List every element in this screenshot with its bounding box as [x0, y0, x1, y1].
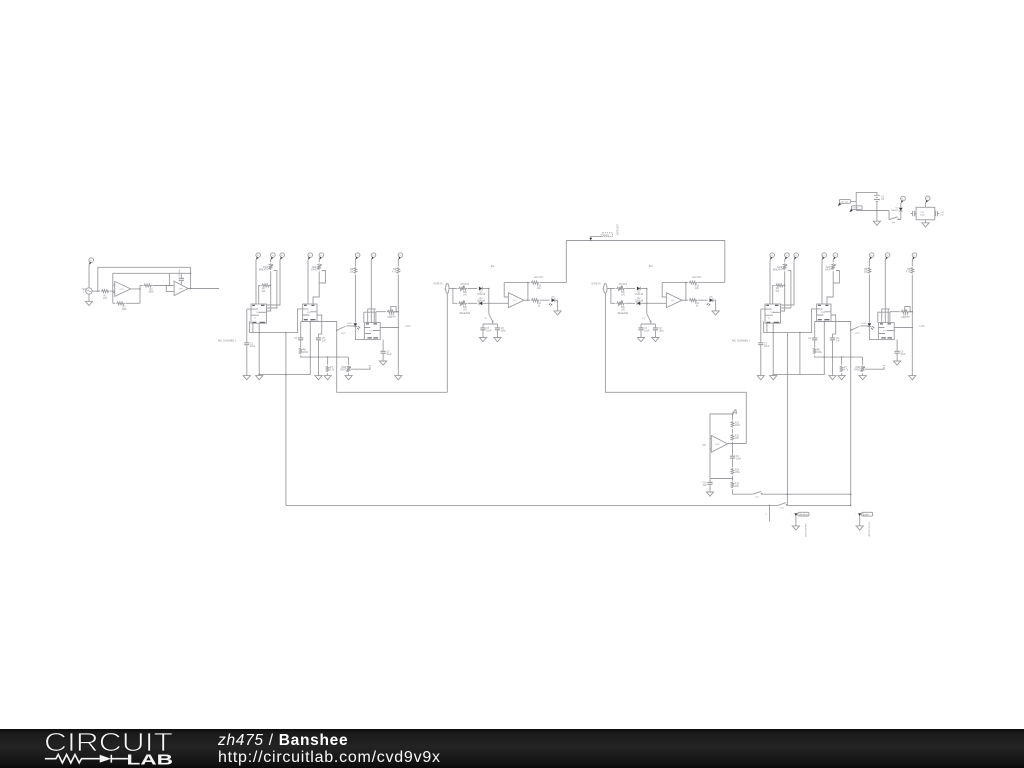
svg-text:10k: 10k: [261, 291, 266, 293]
svg-text:LM: LM: [702, 444, 705, 447]
capacitor C10: [707, 482, 712, 484]
wire IC2 bottom left: [300, 322, 302, 338]
wire wiper: [267, 271, 277, 308]
capacitor C12: [935, 211, 940, 217]
svg-text:0V ref: 0V ref: [853, 207, 859, 210]
diode D1: [479, 287, 482, 291]
capacitor C6: [381, 351, 386, 353]
wire output: [188, 288, 219, 290]
svg-text:GATE OUT: GATE OUT: [617, 223, 620, 235]
svg-text:+9V rail: +9V rail: [840, 201, 848, 204]
svg-text:100u: 100u: [501, 331, 507, 333]
wire IC3 bottom: [382, 340, 384, 351]
svg-text:LAB: LAB: [127, 753, 174, 768]
svg-text:+: +: [175, 286, 177, 288]
wire long net: [285, 333, 287, 375]
IC U3: [303, 304, 317, 322]
svg-text:swing: swing: [603, 235, 610, 237]
wire: [318, 260, 320, 263]
wire: [732, 459, 734, 468]
preamp cluster 1 (left): [218, 253, 411, 380]
trimmer GAIN: [317, 263, 322, 269]
svg-text:LFO: LFO: [406, 324, 411, 328]
wire main bus: [286, 504, 778, 506]
svg-text:DEPTH: DEPTH: [388, 317, 396, 319]
svg-text:+: +: [116, 285, 118, 287]
svg-text:680k: 680k: [149, 292, 155, 294]
pot RATE: [348, 357, 350, 365]
wire lfo out bus: [733, 493, 753, 495]
node junctions: [166, 285, 168, 287]
wire: [762, 493, 851, 495]
svg-text:AFTERTOUCH: AFTERTOUCH: [868, 521, 871, 536]
capacitor C8: [495, 328, 500, 330]
svg-text:1N4148: 1N4148: [477, 294, 486, 296]
wire: [259, 285, 261, 304]
wire: [270, 260, 272, 263]
svg-text:-: -: [176, 291, 177, 293]
wire IC1 bottom: [253, 323, 259, 332]
wire R3 row: [140, 285, 173, 287]
wire: [110, 290, 115, 292]
wire output: [524, 299, 550, 301]
resistor R14: [731, 468, 734, 474]
supply flag V1: [89, 258, 94, 265]
switch gate: [336, 330, 338, 332]
capacitor C11: [911, 211, 916, 217]
wire: [482, 302, 508, 304]
svg-text:pwr: pwr: [892, 221, 896, 224]
svg-text:10k: 10k: [735, 486, 740, 488]
ground: [324, 376, 331, 380]
ground: [494, 338, 501, 342]
resistor R11: [531, 299, 540, 302]
svg-text:10uF: 10uF: [486, 331, 492, 333]
svg-text:9V: 9V: [881, 199, 884, 201]
svg-text:C4: C4: [294, 338, 298, 340]
svg-text:RATE: RATE: [340, 369, 346, 372]
switch S2: [753, 491, 761, 494]
wire IC3 right pin: [380, 327, 398, 329]
resistor R3: [143, 284, 152, 287]
wire RATE wiper: [351, 367, 370, 369]
wire long net2: [301, 322, 337, 375]
wire: [307, 260, 309, 305]
capacitor C1: [180, 273, 182, 284]
svg-text:S1: S1: [484, 318, 487, 320]
svg-text:+: +: [855, 514, 857, 516]
svg-text:LIN: LIN: [463, 295, 467, 297]
svg-text:+: +: [791, 514, 793, 516]
svg-text:sw2: sw2: [780, 508, 785, 510]
resistor R4: [261, 284, 270, 287]
ground: [88, 294, 90, 301]
op-amp U6: [711, 436, 727, 453]
svg-text:10k: 10k: [537, 288, 542, 290]
wire gate A riser: [446, 293, 448, 392]
supply flag F1: [256, 253, 261, 260]
wire: [925, 203, 927, 223]
svg-text:LM3: LM3: [715, 444, 720, 446]
supply flag F8: [398, 253, 403, 260]
svg-text:1k: 1k: [538, 306, 541, 308]
wire: [313, 271, 319, 304]
switch S4: [889, 217, 898, 220]
wire left net A: [285, 375, 287, 506]
svg-text:+: +: [713, 440, 715, 442]
wire: [467, 302, 477, 304]
svg-text:10uF: 10uF: [920, 215, 926, 217]
wire: [732, 414, 734, 420]
wire lower branch: [453, 289, 458, 304]
wire feedback box: [364, 312, 376, 322]
svg-text:10uF: 10uF: [386, 354, 392, 356]
ground: [706, 492, 713, 496]
preamp cluster 2 (right copy): [732, 253, 925, 380]
wire: [732, 429, 734, 434]
port GATE: [446, 284, 449, 294]
svg-text:LIN: LIN: [463, 310, 467, 312]
wire: [467, 288, 477, 290]
wire junction left: [710, 479, 733, 483]
svg-text:100k: 100k: [735, 472, 741, 474]
pot RELEASE: [458, 300, 467, 306]
supply flag F5: [319, 253, 324, 260]
LED2: [552, 298, 555, 302]
wire: [354, 275, 356, 323]
wire: [876, 202, 878, 211]
resistor R15: [731, 482, 734, 488]
svg-text:ATTACK: ATTACK: [461, 283, 470, 286]
IC U2: [251, 304, 267, 323]
svg-text:10n: 10n: [940, 215, 944, 217]
supply flag F7: [371, 253, 376, 260]
resistor R7: [327, 357, 329, 365]
capacitor C4: [298, 338, 303, 340]
svg-text:-: -: [116, 293, 117, 295]
svg-text:+: +: [510, 297, 512, 299]
wire left gate net: [337, 375, 448, 393]
svg-text:sw1: sw1: [755, 497, 760, 499]
svg-text:MIC CHANNEL 1: MIC CHANNEL 1: [218, 340, 237, 343]
overall feedback top wire: [98, 267, 191, 291]
capacitor C5: [316, 338, 321, 340]
svg-text:Buffer: Buffer: [863, 513, 869, 516]
wire: [92, 290, 100, 292]
wire: [255, 260, 257, 305]
power supply corner: [838, 193, 945, 227]
resistor R2: [116, 302, 125, 305]
wire cap riser: [168, 273, 170, 285]
svg-text:EG: EG: [491, 264, 495, 268]
supply flag V+: [901, 196, 906, 203]
svg-text:RELEASE: RELEASE: [460, 312, 471, 315]
wire gate B riser: [605, 293, 746, 443]
wire bottom: [856, 210, 889, 212]
wire feedback box 2: [368, 309, 376, 323]
op-amp U1B: [174, 281, 188, 295]
wire: [732, 476, 734, 481]
ground: [922, 223, 929, 227]
wire stub: [769, 505, 771, 521]
svg-text:GAIN: GAIN: [311, 269, 317, 272]
trimmer DEPTH: [387, 310, 396, 313]
svg-text:100k: 100k: [735, 425, 741, 427]
svg-text:C1 10p: C1 10p: [179, 269, 181, 277]
LFO block U6: [702, 410, 746, 497]
wire output riser: [527, 283, 529, 301]
capacitor C9: [730, 456, 735, 458]
wire: [267, 260, 281, 306]
svg-text:LED1: LED1: [347, 323, 353, 325]
cluster tail wires: [285, 333, 851, 506]
wire op-amp1 output: [131, 286, 140, 304]
wire: [376, 311, 398, 313]
wire: [449, 288, 457, 290]
ground: [873, 221, 880, 225]
mic source V1: [86, 288, 92, 294]
pot ATTACK: [458, 286, 467, 292]
capacitor C7: [480, 328, 485, 330]
wire: [787, 504, 851, 506]
LED1: [354, 323, 358, 326]
ground: [243, 376, 250, 380]
svg-text:100k: 100k: [122, 309, 128, 311]
wire: [318, 340, 320, 375]
wire: [355, 327, 364, 340]
wire: [732, 444, 734, 456]
inner loop wire: [113, 272, 191, 274]
switch S3: [778, 503, 786, 506]
svg-text:gate: gate: [341, 331, 346, 334]
envelope generator 2 (right copy): [591, 264, 724, 342]
resistor R10: [531, 281, 540, 284]
trimmer BREATH: [268, 263, 273, 269]
svg-text:a: a: [766, 513, 768, 515]
svg-text:LED: LED: [551, 297, 556, 299]
battery V2: [874, 195, 880, 199]
svg-text:1N4148: 1N4148: [477, 301, 486, 303]
wire: [301, 356, 349, 358]
svg-text:MOD WHEEL: MOD WHEEL: [805, 522, 807, 536]
svg-text:BREATH: BREATH: [259, 269, 268, 272]
wire feedback: [504, 283, 508, 297]
svg-text:10k: 10k: [103, 298, 108, 300]
wire: [258, 333, 260, 376]
wire: [482, 288, 489, 290]
wire: [259, 357, 310, 375]
svg-text:1N4001: 1N4001: [891, 210, 899, 212]
wire right net A: [786, 333, 788, 506]
wire: [732, 442, 734, 444]
diode D2: [479, 301, 482, 305]
op-amp U5: [508, 293, 524, 308]
wire to inverting input: [166, 286, 174, 292]
supply flag F6: [355, 253, 360, 260]
op-amp U1A: [115, 281, 131, 296]
svg-text:MaxMod: MaxMod: [799, 514, 809, 516]
wire: [88, 265, 90, 288]
envelope generator 1: [433, 264, 566, 342]
resistor R8: [354, 267, 357, 273]
ground: [395, 376, 402, 380]
wire to ground: [555, 300, 558, 311]
wire: [300, 340, 302, 347]
wire battery ground: [876, 211, 878, 222]
node junction: [97, 290, 99, 292]
CircuitLab logo: [0, 729, 200, 768]
wire bottom rail: [250, 309, 303, 333]
svg-text:in: in: [444, 288, 446, 290]
wire IC2 right pin: [317, 315, 322, 338]
resistor R12: [731, 421, 734, 427]
svg-text:10k: 10k: [735, 438, 740, 440]
switch S1: [489, 314, 493, 321]
DC jack J1: [916, 207, 935, 220]
resistor R1: [101, 290, 110, 293]
supply flag F4: [308, 253, 313, 260]
mic input stage U1: [82, 258, 219, 311]
ground: [256, 376, 263, 380]
wire right net B: [850, 375, 852, 506]
wire hold: [488, 289, 490, 314]
supply flag jack: [925, 196, 930, 203]
wire: [888, 211, 890, 220]
net flag rail: [839, 200, 850, 204]
svg-text:IC: IC: [254, 318, 257, 320]
wire: [899, 211, 901, 219]
ground: [554, 311, 561, 315]
wire wiper: [391, 306, 396, 311]
svg-text:TL0: TL0: [513, 300, 517, 302]
svg-text:1uF: 1uF: [703, 485, 708, 487]
svg-text:4.7k: 4.7k: [330, 370, 335, 372]
interconnect wires: [447, 223, 746, 443]
wire wiper loop: [319, 271, 325, 284]
svg-text:10uF: 10uF: [250, 346, 256, 348]
wire top link net: [566, 241, 725, 283]
svg-text:10k: 10k: [349, 271, 354, 273]
supply arrow flag: [733, 410, 737, 414]
svg-text:sw: sw: [369, 365, 372, 367]
resistor R13: [731, 434, 734, 440]
svg-text:1 V: 1 V: [83, 292, 87, 294]
svg-text:EG OUT: EG OUT: [534, 277, 543, 279]
wire: [732, 489, 734, 494]
wire: [900, 203, 902, 208]
svg-text:1uF: 1uF: [322, 340, 327, 342]
wire: [267, 271, 271, 311]
wire: [483, 322, 497, 328]
wire feedback tap: [710, 414, 733, 439]
svg-text:OP1: OP1: [120, 289, 125, 291]
wire: [370, 260, 372, 323]
supply flag F3: [280, 253, 285, 260]
svg-text:4.7k: 4.7k: [392, 271, 397, 273]
diode D3: [899, 208, 903, 211]
net flag swing: [589, 238, 592, 241]
resistor R6: [299, 348, 302, 354]
ground: [856, 526, 863, 530]
capacitor C3: [247, 309, 251, 376]
wire: [382, 354, 384, 361]
ground: [315, 376, 322, 380]
wire: [397, 275, 399, 376]
svg-text:10uF: 10uF: [736, 459, 742, 461]
svg-text:555: 555: [307, 312, 311, 314]
svg-text:OP2: OP2: [179, 289, 184, 291]
svg-text:GATE IN: GATE IN: [433, 283, 442, 286]
wire inverting loop: [710, 439, 711, 479]
bottom bus wiring: [286, 491, 873, 536]
svg-text:100k: 100k: [303, 352, 309, 354]
ground: [345, 376, 352, 380]
wire output: [728, 443, 747, 445]
supply flag F2: [271, 253, 276, 260]
resistor R9: [397, 267, 400, 273]
ground: [479, 338, 486, 342]
net flag gnd0: [852, 206, 863, 210]
wire: [354, 260, 356, 267]
ground: [380, 361, 387, 365]
wire top: [856, 193, 877, 211]
feedback wire: [113, 273, 140, 303]
ground: [792, 526, 799, 530]
wire: [397, 260, 399, 267]
wire IC2 bottom mid: [309, 322, 311, 358]
IC U4 opto: [364, 323, 380, 340]
